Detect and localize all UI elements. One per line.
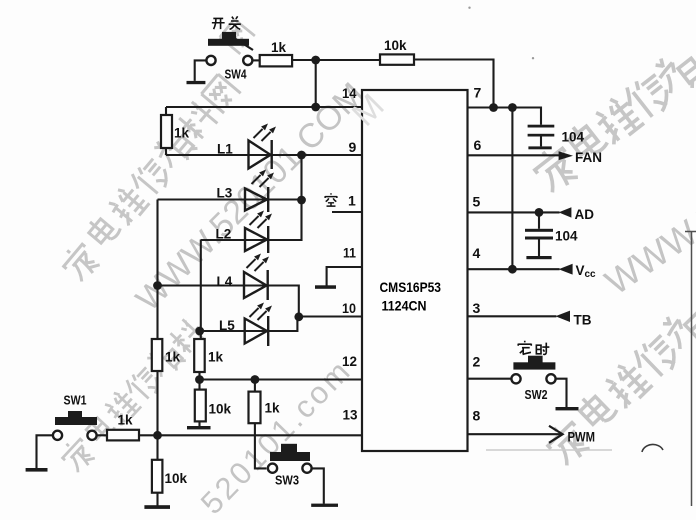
svg-text:9: 9 xyxy=(349,139,357,155)
svg-text:AD: AD xyxy=(575,207,595,222)
svg-text:10k: 10k xyxy=(165,471,188,486)
svg-text:2: 2 xyxy=(473,354,481,370)
svg-text:10: 10 xyxy=(342,300,356,316)
svg-text:5: 5 xyxy=(473,194,481,210)
svg-text:1k: 1k xyxy=(271,40,287,55)
svg-text:1k: 1k xyxy=(118,413,134,428)
svg-text:SW3: SW3 xyxy=(275,473,299,488)
svg-text:PWM: PWM xyxy=(568,430,596,445)
svg-text:1k: 1k xyxy=(174,126,190,141)
svg-text:8: 8 xyxy=(473,408,481,424)
svg-text:CMS16P53: CMS16P53 xyxy=(380,279,442,295)
svg-text:10k: 10k xyxy=(209,402,232,417)
svg-text:L2: L2 xyxy=(216,227,232,242)
svg-text:12: 12 xyxy=(342,353,357,369)
svg-text:7: 7 xyxy=(474,85,482,101)
svg-text:FAN: FAN xyxy=(575,150,602,165)
svg-text:6: 6 xyxy=(474,137,482,153)
svg-text:1k: 1k xyxy=(265,401,281,416)
svg-text:L4: L4 xyxy=(217,274,233,289)
svg-text:SW1: SW1 xyxy=(64,393,87,408)
svg-text:WWW.5: WWW.5 xyxy=(598,196,696,303)
svg-text:3: 3 xyxy=(473,300,481,316)
svg-text:SW2: SW2 xyxy=(525,387,548,402)
svg-text:104: 104 xyxy=(555,229,578,244)
svg-text:11: 11 xyxy=(343,245,356,261)
svg-text:1k: 1k xyxy=(208,350,224,365)
svg-text:14: 14 xyxy=(342,85,357,101)
svg-text:1: 1 xyxy=(348,193,356,209)
svg-text:4: 4 xyxy=(473,245,481,261)
svg-text:L1: L1 xyxy=(217,142,233,157)
svg-text:10k: 10k xyxy=(384,38,407,53)
svg-text:1k: 1k xyxy=(165,350,181,365)
svg-text:L3: L3 xyxy=(217,186,233,201)
svg-text:cc: cc xyxy=(585,269,597,280)
svg-text:TB: TB xyxy=(574,313,592,328)
svg-text:SW4: SW4 xyxy=(225,67,248,82)
svg-text:1124CN: 1124CN xyxy=(382,298,427,314)
svg-text:13: 13 xyxy=(343,407,358,423)
svg-text:V: V xyxy=(576,263,585,278)
svg-text:L5: L5 xyxy=(219,318,235,333)
svg-text:104: 104 xyxy=(562,130,585,145)
